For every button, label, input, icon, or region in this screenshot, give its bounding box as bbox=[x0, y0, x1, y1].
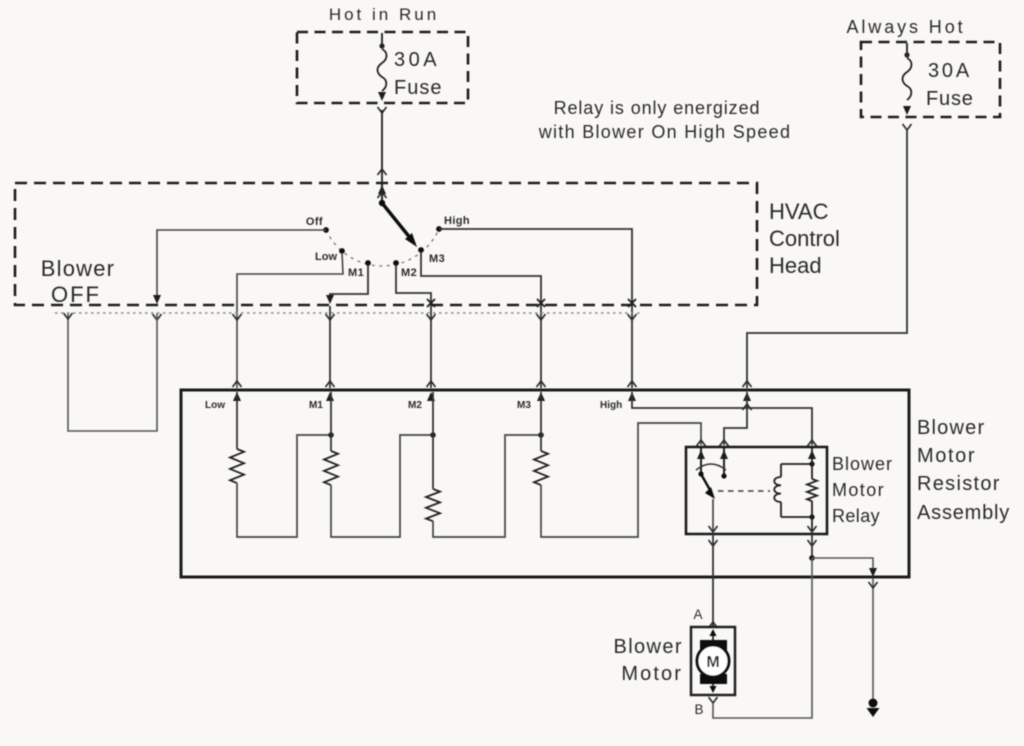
motor brush top bbox=[700, 640, 727, 651]
svg-text:Blower: Blower bbox=[832, 454, 893, 474]
blower motor resistor assembly box bbox=[181, 390, 909, 577]
svg-text:HVAC: HVAC bbox=[769, 199, 829, 224]
svg-text:Low: Low bbox=[315, 251, 337, 263]
node J2 bbox=[430, 432, 436, 438]
coil top rail bbox=[781, 463, 812, 465]
wire High to resistor assembly bbox=[439, 229, 632, 388]
switch arm to M3 bbox=[382, 203, 411, 239]
svg-text:Relay is only energized: Relay is only energized bbox=[554, 98, 761, 118]
svg-text:Resistor: Resistor bbox=[917, 473, 1001, 495]
wire junction to ground drop bbox=[812, 558, 873, 576]
svg-text:Fuse: Fuse bbox=[926, 88, 974, 110]
resistor chain: M2 column + resistor R3 bbox=[432, 392, 434, 489]
node J3 bbox=[538, 432, 544, 438]
ground G1 bbox=[869, 699, 878, 708]
HVAC control head dashed box bbox=[15, 183, 757, 305]
svg-text:30A: 30A bbox=[928, 60, 972, 82]
wire High to relay coil bbox=[632, 392, 812, 445]
wire M3 to resistor assembly bbox=[421, 252, 541, 388]
wire Off loop bbox=[157, 230, 326, 302]
coil bottom rail bbox=[781, 516, 812, 518]
wire Low to resistor assembly bbox=[237, 253, 343, 388]
svg-text:Head: Head bbox=[769, 253, 822, 278]
motor M circle bbox=[697, 645, 729, 677]
contact M2 bbox=[393, 260, 399, 266]
wire relay coil return bbox=[811, 534, 813, 558]
blower motor relay box bbox=[686, 447, 827, 534]
svg-text:M3: M3 bbox=[517, 400, 531, 411]
svg-text:M1: M1 bbox=[309, 400, 323, 411]
relay armature output wire bbox=[712, 499, 714, 532]
fuse box (Always Hot) bbox=[861, 42, 1000, 117]
svg-text:A: A bbox=[693, 607, 702, 622]
wire motor B return bbox=[713, 558, 812, 718]
contact M3 bbox=[418, 247, 424, 253]
svg-text:Hot in Run: Hot in Run bbox=[329, 5, 439, 24]
resistor chain: M3 column + resistor R4 bbox=[540, 392, 542, 451]
svg-text:M1: M1 bbox=[348, 267, 364, 279]
wire M2 to resistor assembly bbox=[396, 265, 431, 388]
switch common wire bbox=[381, 184, 383, 203]
svg-text:Assembly: Assembly bbox=[917, 502, 1010, 524]
svg-text:B: B bbox=[694, 702, 703, 717]
switch contact arc bbox=[326, 229, 439, 266]
switch pivot bbox=[379, 200, 385, 206]
fuse F2 30A bbox=[906, 43, 908, 54]
contact Off bbox=[323, 227, 329, 233]
wire fuse1 to HVAC head bbox=[378, 107, 387, 113]
svg-text:Off: Off bbox=[306, 216, 323, 228]
svg-text:High: High bbox=[600, 400, 622, 411]
relay NC contact (from resistor chain) bbox=[700, 448, 702, 474]
wire chain output to relay bbox=[541, 423, 701, 537]
fuse box (Hot in Run) bbox=[297, 32, 468, 103]
wire always-hot to relay NO contact bbox=[724, 392, 747, 445]
svg-text:High: High bbox=[444, 215, 470, 227]
svg-text:M: M bbox=[706, 654, 719, 671]
motor brush bottom bbox=[700, 674, 727, 684]
contact High bbox=[436, 226, 442, 232]
svg-text:Blower: Blower bbox=[41, 256, 115, 281]
relay NO contact (always hot) bbox=[723, 448, 725, 476]
fuse F1 30A bbox=[381, 33, 383, 45]
svg-text:Low: Low bbox=[205, 400, 225, 411]
wire always-hot feed bbox=[903, 124, 912, 130]
connector dotted line bbox=[55, 312, 640, 314]
svg-text:Always Hot: Always Hot bbox=[846, 17, 965, 37]
relay armature bbox=[701, 474, 710, 490]
resistor chain: M1 column + resistor R2 bbox=[330, 392, 332, 451]
svg-text:30A: 30A bbox=[394, 49, 440, 71]
svg-text:M2: M2 bbox=[401, 267, 417, 279]
svg-text:Motor: Motor bbox=[621, 663, 683, 685]
resistor chain: Low column + resistor R1 bbox=[236, 392, 238, 449]
svg-text:Motor: Motor bbox=[917, 445, 976, 467]
svg-text:with Blower On High Speed: with Blower On High Speed bbox=[538, 122, 792, 142]
blower motor box bbox=[691, 627, 735, 695]
svg-text:Blower: Blower bbox=[613, 636, 683, 658]
svg-text:Fuse: Fuse bbox=[394, 77, 442, 99]
svg-text:Blower: Blower bbox=[917, 417, 985, 439]
contact M1 bbox=[365, 260, 371, 266]
svg-text:M3: M3 bbox=[429, 253, 445, 265]
svg-text:Control: Control bbox=[769, 226, 840, 251]
feed wire into assembly bbox=[743, 381, 752, 387]
relay mechanical link (dashed) bbox=[718, 490, 770, 492]
svg-text:Motor: Motor bbox=[832, 480, 885, 500]
relay contact travel arc bbox=[696, 464, 726, 470]
wire relay output to motor A bbox=[712, 534, 714, 626]
svg-text:Relay: Relay bbox=[832, 506, 880, 526]
node ground junction bbox=[809, 555, 815, 561]
relay resistor R5 bbox=[811, 448, 813, 479]
svg-text:OFF: OFF bbox=[51, 282, 101, 307]
relay coil L1 bbox=[780, 464, 782, 477]
svg-text:M2: M2 bbox=[408, 400, 422, 411]
motor bottom arrow bbox=[712, 684, 714, 690]
wire M1 to resistor assembly bbox=[330, 265, 368, 302]
contact Low bbox=[339, 248, 345, 254]
node J1 bbox=[328, 432, 334, 438]
